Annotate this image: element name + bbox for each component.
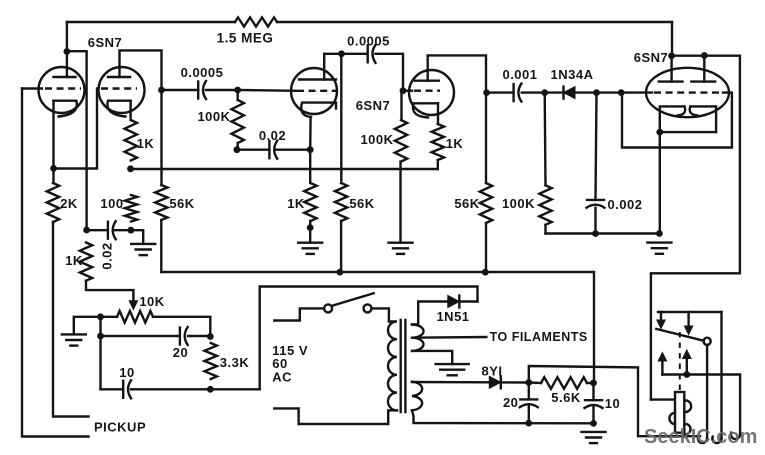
wire 100K grid leads — [400, 91, 402, 120]
ground under V2A cathode 1K — [298, 241, 322, 243]
wire B+ feedback top bus left segment — [67, 21, 235, 23]
wire 1K to pot wiper — [86, 281, 133, 302]
tube V3 cathode 1 — [660, 106, 685, 132]
wire 100K detector leads — [544, 93, 547, 186]
wire V3 cathode to ground — [659, 132, 661, 233]
resistor 2K (V1A cathode) — [47, 183, 59, 222]
capacitor 0.02 (feedback, horizontal) — [107, 222, 109, 239]
wire 56K plate leads — [485, 93, 487, 183]
tube V3 6SN7 envelope (dual triode) — [646, 68, 729, 117]
wire motor frame vertical — [720, 312, 722, 438]
resistor 100K (V2B grid) — [395, 120, 407, 162]
wire coupling to V2B grid — [376, 54, 404, 91]
tube V1A grid (dashed) and lead to pickup — [22, 87, 42, 89]
transformer T1 filament winding — [412, 325, 424, 351]
tube V1A cathode — [54, 101, 77, 117]
tube V2B plate bar — [415, 79, 439, 81]
svg-text:TO FILAMENTS: TO FILAMENTS — [490, 330, 588, 344]
resistor 5.6K (filter) — [541, 377, 587, 389]
transformer T1 primary winding — [388, 321, 397, 410]
svg-text:0.02: 0.02 — [259, 128, 286, 143]
junction cathode V1A / 2K / grid V1B node — [50, 165, 57, 172]
motor lead hook 1 — [698, 437, 707, 443]
junction 20uF tap — [97, 333, 104, 340]
wire 115V upper lead — [274, 308, 324, 320]
motor shaft (dashed) — [679, 332, 681, 391]
svg-text:0.001: 0.001 — [502, 67, 537, 82]
junction pot-left / bias feed node — [97, 313, 104, 320]
svg-text:8YI: 8YI — [481, 364, 502, 379]
junction 0.002 node — [593, 89, 600, 96]
svg-text:0.0005: 0.0005 — [181, 65, 224, 80]
wire 56K plate-load riser — [340, 54, 342, 183]
svg-text:1N51: 1N51 — [436, 309, 469, 324]
motor brush arrow mid — [687, 312, 689, 327]
junction 100K detector node — [541, 89, 548, 96]
wire primary bottom to 115V lower lead — [274, 408, 397, 424]
wire 1K lead upper — [309, 150, 311, 183]
junction 56K / B+ bus right — [482, 269, 489, 276]
wire 2K bottom to pickup lower terminal — [53, 222, 89, 417]
motor lead hook 3 — [731, 433, 740, 439]
tube V1B grid (dashed) — [101, 87, 137, 89]
motor governor lever — [656, 329, 704, 341]
junction V3 cathode node — [656, 129, 663, 136]
wire 1K to cathode bias bus — [437, 160, 439, 169]
wire B+ bus — [161, 272, 594, 383]
junction V2A plate / 56K node — [338, 50, 345, 57]
svg-text:1.5 MEG: 1.5 MEG — [217, 31, 274, 46]
wire V3 grid return loop — [622, 93, 732, 148]
wire filament winding bottom to ground — [412, 351, 452, 364]
tube V3 grids (dashed) — [654, 91, 723, 93]
motor solenoid winding — [684, 400, 691, 412]
capacitor 20 (filter, vertical) — [520, 398, 537, 400]
wire 56K to B+ bus — [340, 221, 342, 272]
resistor 56K (V2B plate load) — [480, 183, 492, 223]
svg-text:10: 10 — [605, 396, 620, 411]
capacitor 10 (bias, horizontal) — [122, 381, 124, 398]
potentiometer wiper arrow — [129, 301, 137, 310]
svg-text:20: 20 — [503, 395, 518, 410]
junction output grid node — [618, 89, 625, 96]
junction V2A cathode node — [307, 146, 314, 153]
transformer T1 core — [400, 320, 402, 412]
junction 100 bottom node — [127, 227, 134, 234]
junction filter input node — [525, 379, 532, 386]
wire 8Y1 to filter — [501, 381, 529, 384]
wire 10uF leads — [592, 383, 594, 400]
capacitor 0.0005 (coupling #2) — [367, 45, 369, 62]
wire detector ground run — [546, 232, 660, 234]
capacitor 0.0005 (coupling #1) — [197, 82, 199, 99]
junction 100K bottom / 0.02 node — [234, 146, 241, 153]
wire V1A plate to feedback network (down to 0.02/1K node) — [67, 51, 87, 230]
switch contact right — [364, 304, 372, 312]
tube V2A plate bar — [299, 78, 336, 80]
junction V1B plate / 0.0005 node — [158, 87, 165, 94]
ground power supply — [582, 431, 606, 433]
capacitor 0.001 — [512, 84, 514, 101]
motor pivot — [704, 338, 711, 345]
wire filter node leads — [529, 381, 541, 384]
junction 0.02 cap / 1K feedback node — [83, 227, 90, 234]
wire filament tap — [412, 336, 486, 339]
motor contact arrow left (up) — [661, 360, 663, 375]
tube V1B plate bar — [108, 76, 130, 78]
tube V3 plate bar 2 — [691, 80, 715, 82]
wire V1A cathode lead down — [52, 101, 54, 183]
wire 20uF lead left — [101, 335, 180, 337]
wire top bus right segment — [277, 21, 672, 23]
svg-text:56K: 56K — [454, 196, 479, 211]
wire switch to transformer primary — [372, 308, 389, 321]
svg-text:20: 20 — [173, 345, 188, 360]
tube V2A 6SN7 envelope — [291, 68, 337, 114]
svg-text:5.6K: 5.6K — [551, 390, 581, 405]
svg-text:2K: 2K — [60, 196, 78, 211]
switch lever — [332, 293, 374, 306]
wire detector line seg1 — [486, 91, 513, 93]
motor solenoid core — [675, 392, 684, 433]
capacitor 0.02 (cathode-grid, horizontal) — [268, 141, 270, 158]
svg-text:1K: 1K — [287, 196, 305, 211]
wire detector line seg3 — [575, 91, 652, 93]
wire 20uF lead right — [188, 335, 210, 337]
wire 0.02 leads — [87, 229, 108, 231]
ground under V2B grid 100K — [389, 241, 413, 243]
tube V2A plate riser — [323, 54, 325, 80]
wire V2A plate top run — [324, 53, 367, 55]
wire 100 bottom to ground tap — [131, 230, 143, 244]
wire HV winding bottom return — [412, 410, 594, 423]
wire to V2A grid — [238, 89, 296, 92]
junction 3.3K bottom node — [207, 386, 214, 393]
wire V3 plate 2 riser — [703, 56, 705, 82]
svg-text:1K: 1K — [65, 253, 83, 268]
ground at pot left — [62, 333, 86, 335]
svg-text:SeekIC.com: SeekIC.com — [644, 426, 757, 448]
ground under 100 ohm — [131, 243, 155, 245]
wire 100K leads — [236, 90, 238, 100]
svg-text:56K: 56K — [349, 196, 374, 211]
tube V2B plate riser and run to detector — [428, 55, 486, 92]
ground transformer center-tap — [436, 363, 469, 365]
motor lead hook 2 — [712, 437, 721, 443]
svg-text:100K: 100K — [360, 132, 393, 147]
diode 8Y1 (HV rectifier) — [489, 376, 501, 388]
svg-text:1K: 1K — [137, 136, 155, 151]
wire HV winding to 8Y1 — [412, 381, 489, 384]
tube V1B plate riser and coupling run — [120, 50, 162, 185]
wire detector line seg2 — [522, 91, 564, 93]
junction 1K bottom / 100 ohm top node — [127, 165, 134, 172]
junction 10uF bottom / ground — [590, 420, 597, 427]
wire cathode bias bus (to V2B cathode 1K) — [131, 168, 438, 170]
wire 0.02 leads — [237, 148, 270, 150]
wire bias line to rectified supply — [101, 388, 124, 390]
svg-text:0.002: 0.002 — [607, 197, 642, 212]
svg-text:10: 10 — [119, 365, 134, 380]
tube V2B 6SN7 envelope — [409, 70, 454, 115]
svg-text:1K: 1K — [446, 136, 464, 151]
junction motor contact node — [683, 371, 690, 378]
junction 1K bottom — [307, 224, 314, 231]
resistor 56K (V2A plate load) — [335, 183, 347, 221]
wire V2B cathode lead — [437, 103, 439, 124]
potentiometer 10K body — [117, 311, 153, 323]
wire V3 cathode join — [660, 131, 716, 133]
motor brush arrow left — [660, 312, 662, 321]
capacitor 10 (filter, vertical) — [585, 399, 602, 401]
tube V2B grid (dashed) — [403, 89, 412, 91]
junction 56K / B+ bus — [337, 269, 344, 276]
svg-text:100K: 100K — [197, 109, 230, 124]
wire motor feed from plate bus — [651, 56, 740, 400]
resistor R 1.5 MEG (plate feedback) — [235, 17, 277, 26]
junction V2B plate node — [483, 89, 490, 96]
wire cathode node to V1B grid — [54, 89, 97, 169]
svg-text:0.0005: 0.0005 — [347, 34, 390, 49]
resistor 1K (V1B cathode) — [125, 120, 137, 161]
resistor 1K (V2B cathode) — [432, 124, 444, 160]
svg-text:6SN7: 6SN7 — [634, 50, 669, 65]
wire coupling cap leads — [162, 89, 199, 91]
wire top bus drop to output tube plates — [671, 22, 673, 56]
wire motor coil feed — [651, 398, 673, 400]
wire V1A grid to pickup upper terminal — [22, 89, 89, 437]
svg-text:100K: 100K — [502, 196, 535, 211]
resistor 1K (V2A cathode) — [304, 183, 316, 221]
svg-text:PICKUP: PICKUP — [94, 420, 146, 435]
wire 20uF leads — [528, 383, 530, 400]
wire pot left end to ground — [74, 317, 117, 334]
wire motor pivot lead — [706, 345, 708, 438]
junction V2B grid node — [400, 87, 407, 94]
svg-text:0.02: 0.02 — [100, 242, 115, 269]
capacitor 20 (bias filter, horizontal) — [179, 328, 181, 345]
wire motor supply branch — [529, 366, 700, 436]
junction 3.3K top node — [207, 333, 214, 340]
svg-text:3.3K: 3.3K — [220, 355, 250, 370]
motor brush bar — [658, 311, 722, 313]
svg-text:1N34A: 1N34A — [551, 67, 594, 82]
svg-text:10K: 10K — [139, 294, 164, 309]
wire 1N51 cathode to bias line — [461, 300, 478, 302]
junction V3 plate 1 node — [668, 53, 675, 60]
wire 0.002 leads — [596, 93, 597, 200]
resistor 100 (bias divider) — [125, 195, 137, 222]
resistor 3.3K — [205, 343, 217, 379]
diode 1N51 (bias rectifier) — [448, 296, 460, 308]
junction filter output node — [590, 380, 597, 387]
tube V3 plate bar 1 — [659, 80, 683, 82]
wire motor contact line — [662, 375, 740, 435]
ground detector/cathode — [647, 241, 671, 243]
wire 1K to ground — [309, 221, 311, 243]
tube V2A cathode — [301, 103, 336, 117]
wire 56K to B+ bus corner — [160, 220, 162, 272]
wire bias line riser to 1N51 output — [260, 287, 478, 390]
wire V3 plate 1 riser — [670, 56, 672, 82]
wire V1B cathode lead to 1K — [129, 101, 131, 120]
capacitor 0.002 (vertical) — [587, 199, 604, 201]
junction V1A plate node — [64, 48, 71, 55]
tube V1A plate bar — [54, 76, 76, 78]
wire V1A plate riser from top bus — [66, 22, 68, 77]
junction V2A grid / 100K node — [234, 87, 241, 94]
junction V3 plate 2 node — [701, 52, 708, 59]
motor contact arrow right (up) — [686, 358, 688, 375]
wire V2A cathode lead — [309, 117, 312, 150]
tube V3 cathode 2 — [690, 106, 716, 132]
wire pot right end to 3.3K top — [153, 317, 210, 336]
svg-text:AC: AC — [272, 370, 292, 385]
svg-text:6SN7: 6SN7 — [88, 35, 123, 50]
wire bias column — [99, 317, 101, 390]
resistor 1K (feedback to volume pot) — [80, 243, 92, 281]
svg-text:100: 100 — [100, 196, 123, 211]
svg-text:56K: 56K — [169, 196, 194, 211]
junction cathode ground node — [656, 230, 663, 237]
wire filament winding top to 1N51 — [412, 302, 448, 325]
wire V3 plate bus — [672, 55, 740, 57]
resistor 56K (V1B plate load) — [155, 185, 167, 220]
tube V1B cathode — [107, 101, 130, 117]
svg-text:6SN7: 6SN7 — [356, 98, 391, 113]
diode 1N34A — [564, 87, 576, 99]
junction 0.002 bottom — [592, 230, 599, 237]
switch contact left — [324, 304, 332, 312]
transformer T1 HV winding — [412, 382, 422, 411]
tube V2A grid (dashed) — [297, 90, 336, 92]
resistor 100K (V2A grid) — [232, 100, 244, 143]
tube V1A 6SN7 envelope — [39, 67, 85, 113]
tube V1B 6SN7 envelope — [99, 67, 145, 113]
junction 20uF bottom — [525, 420, 532, 427]
resistor 100K (detector load) — [539, 185, 551, 225]
tube V2B cathode — [413, 103, 438, 117]
